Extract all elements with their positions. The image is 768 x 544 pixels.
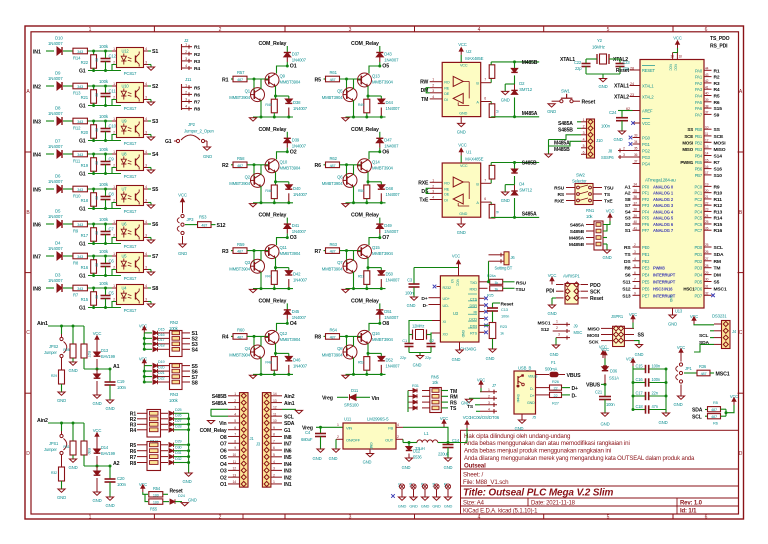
svg-text:Anda bebas menggunakan dan ata: Anda bebas menggunakan dan atau memodifi…: [464, 440, 630, 447]
svg-text:Y2: Y2: [597, 38, 603, 43]
svg-text:21: 21: [705, 195, 709, 199]
resistor R25 1k: [490, 286, 503, 291]
svg-text:R4: R4: [222, 335, 229, 341]
svg-text:PC817: PC817: [124, 141, 137, 146]
label S2: [148, 85, 151, 87]
svg-text:14: 14: [705, 152, 709, 156]
wires emitter/collector: [260, 81, 262, 89]
label S4: [182, 348, 190, 350]
svg-text:O2: O2: [290, 149, 297, 155]
diode lower half: [96, 369, 98, 374]
svg-text:R13: R13: [714, 209, 723, 215]
svg-text:1: 1: [337, 423, 339, 427]
svg-text:PA7: PA7: [695, 112, 703, 117]
svg-text:U5: U5: [122, 254, 128, 259]
connector J3: [262, 393, 271, 488]
svg-text:VBUS: VBUS: [586, 383, 601, 389]
svg-text:S485B: S485B: [558, 127, 573, 133]
svg-text:S1: S1: [152, 49, 158, 55]
svg-text:17: 17: [705, 171, 709, 175]
svg-text:487: 487: [330, 164, 336, 168]
svg-text:MMBT3904: MMBT3904: [322, 181, 344, 186]
svg-text:D37: D37: [292, 52, 300, 57]
svg-text:RSU: RSU: [516, 280, 527, 286]
transistor Q13 MMBT3904: [358, 73, 372, 87]
svg-text:PA5: PA5: [695, 100, 703, 105]
svg-text:S7: S7: [152, 254, 158, 260]
svg-text:GND: GND: [57, 398, 66, 403]
svg-text:22p: 22p: [425, 355, 432, 360]
wires emitter/collector: [260, 167, 262, 175]
svg-text:22: 22: [705, 201, 709, 205]
svg-text:R63: R63: [330, 242, 338, 247]
svg-text:HC06/OS/DT06: HC06/OS/DT06: [470, 415, 500, 420]
wire: [46, 85, 54, 87]
svg-text:J10: J10: [596, 138, 603, 143]
optocoupler U9 PC817: [117, 118, 144, 138]
resistor R36 487: [684, 372, 697, 374]
svg-text:S485A: S485A: [558, 121, 573, 127]
svg-text:22p: 22p: [575, 66, 582, 71]
svg-text:1N4007: 1N4007: [386, 278, 401, 283]
svg-text:R32: R32: [51, 471, 57, 475]
svg-text:12MHz: 12MHz: [412, 324, 424, 329]
wire: [63, 120, 73, 122]
svg-text:INTERRUPT: INTERRUPT: [653, 280, 676, 285]
j9 gnd: [555, 338, 557, 345]
svg-text:Reset: Reset: [590, 296, 604, 302]
svg-text:PC4: PC4: [694, 209, 702, 214]
wire to pin2: [88, 135, 117, 141]
svg-text:27: 27: [705, 257, 709, 261]
svg-text:GND: GND: [409, 504, 418, 509]
avrisp gnd: [552, 297, 556, 299]
capacitor C2 22p: [427, 343, 436, 345]
svg-text:IN4: IN4: [284, 462, 292, 468]
svg-text:1: 1: [113, 284, 115, 288]
resistor R62 487: [324, 164, 326, 166]
svg-text:IN3: IN3: [284, 469, 292, 475]
svg-text:O5: O5: [382, 64, 389, 70]
svg-text:1N4007: 1N4007: [293, 278, 308, 283]
svg-text:4: 4: [145, 185, 147, 189]
j7 gnd wire: [469, 397, 480, 399]
svg-text:DI: DI: [444, 98, 448, 102]
svg-text:D41: D41: [292, 223, 300, 228]
pullup vcc: [725, 409, 727, 416]
svg-text:D50: D50: [386, 272, 394, 277]
svg-text:43: 43: [705, 73, 709, 77]
diode D38 1N4007: [285, 99, 292, 103]
transistor Q16 MMBT3904: [358, 330, 372, 344]
svg-text:25: 25: [705, 220, 709, 224]
svg-text:V3: V3: [450, 279, 454, 283]
svg-text:A1: A1: [625, 184, 631, 190]
svg-text:M485B: M485B: [522, 60, 538, 66]
resistor R29: [61, 358, 63, 370]
svg-text:4: 4: [432, 95, 434, 99]
capacitor C15 100n: [633, 368, 645, 370]
svg-text:G1: G1: [79, 104, 86, 110]
svg-text:22: 22: [554, 387, 558, 391]
svg-text:VCC: VCC: [642, 121, 650, 126]
svg-text:42: 42: [705, 79, 709, 83]
wire to pin2: [88, 65, 117, 71]
diode D9 1N4007: [57, 82, 62, 90]
ground: [548, 104, 555, 107]
wire to pin2: [88, 302, 117, 308]
jp1 gnd: [680, 385, 682, 397]
svg-text:37: 37: [634, 160, 638, 164]
svg-text:GND: GND: [178, 251, 187, 256]
svg-text:4: 4: [145, 82, 147, 86]
capacitor C23 22p: [619, 59, 621, 64]
svg-text:100: 100: [153, 501, 159, 505]
capacitor C22 22p: [585, 59, 587, 64]
j3 pin12 gnd: [282, 408, 296, 410]
capacitor C10: [105, 121, 107, 129]
diode D24: [163, 501, 169, 503]
capacitor C18 47n: [633, 409, 645, 411]
svg-text:R54: R54: [153, 486, 161, 491]
svg-text:MOSI: MOSI: [682, 140, 693, 145]
svg-text:R11: R11: [73, 159, 81, 164]
resistor R26 22: [536, 387, 550, 389]
svg-text:7: 7: [484, 78, 486, 82]
wires emitter/collector: [260, 338, 262, 346]
svg-text:10: 10: [679, 55, 683, 59]
svg-text:PF2: PF2: [642, 197, 650, 202]
bias resistor top: [490, 79, 492, 83]
svg-text:TM: TM: [421, 97, 428, 103]
svg-text:GND: GND: [668, 322, 677, 327]
svg-text:4: 4: [145, 284, 147, 288]
svg-text:343: 343: [77, 153, 83, 157]
svg-text:1N4007: 1N4007: [292, 58, 307, 63]
svg-text:D36: D36: [610, 369, 618, 374]
svg-text:343: 343: [77, 120, 83, 124]
svg-text:C15: C15: [636, 364, 644, 369]
svg-text:S9: S9: [714, 112, 720, 118]
svg-text:PC5: PC5: [694, 216, 702, 221]
label S5: [148, 188, 151, 190]
svg-text:13: 13: [273, 399, 277, 403]
svg-text:Q7: Q7: [337, 260, 343, 265]
svg-text:GND: GND: [501, 97, 510, 102]
svg-text:5: 5: [273, 453, 275, 457]
svg-text:PDI: PDI: [546, 289, 555, 295]
svg-text:R8: R8: [73, 261, 79, 266]
svg-text:D-: D-: [423, 303, 428, 309]
svg-text:TM: TM: [714, 266, 721, 272]
svg-text:R9: R9: [714, 184, 720, 190]
wire: [88, 255, 117, 257]
svg-text:O1: O1: [220, 482, 227, 488]
svg-text:GND: GND: [421, 504, 430, 509]
svg-text:COM_Relay: COM_Relay: [351, 298, 379, 304]
svg-text:JPS1: JPS1: [49, 441, 59, 446]
svg-text:G1: G1: [79, 139, 86, 145]
svg-text:PE3: PE3: [642, 266, 650, 271]
svg-text:37: 37: [705, 111, 709, 115]
svg-text:C23: C23: [623, 60, 631, 65]
svg-text:D31: D31: [175, 451, 182, 455]
connector J6 setting: [489, 254, 505, 256]
svg-text:100n: 100n: [652, 364, 661, 369]
svg-text:M485B: M485B: [569, 242, 585, 248]
svg-text:R4: R4: [194, 66, 200, 72]
svg-text:1: 1: [556, 319, 558, 323]
svg-text:G1: G1: [79, 306, 86, 312]
svg-text:2: 2: [583, 124, 585, 128]
svg-text:1N4007: 1N4007: [48, 41, 63, 46]
wire to bases: [247, 250, 269, 252]
svg-text:343: 343: [77, 287, 83, 291]
svg-text:GND: GND: [398, 504, 407, 509]
svg-text:C2: C2: [429, 338, 434, 343]
svg-text:1N4007: 1N4007: [293, 192, 308, 197]
svg-text:3: 3: [558, 333, 560, 337]
svg-text:S6: S6: [625, 273, 631, 279]
svg-text:IN5: IN5: [33, 187, 41, 193]
label S485B: [491, 162, 539, 164]
svg-text:U10: U10: [122, 84, 130, 89]
TVS diode D2 SM712: [514, 62, 516, 69]
svg-text:D14: D14: [101, 445, 109, 450]
svg-text:GND: GND: [486, 356, 495, 361]
emitter rail and ground: [260, 186, 262, 203]
svg-text:Q2: Q2: [245, 174, 251, 179]
diode D49 1N4007: [376, 224, 383, 228]
svg-text:S485B: S485B: [522, 161, 537, 167]
svg-text:14: 14: [232, 480, 236, 484]
optocoupler U10 PC817: [117, 83, 144, 103]
svg-text:R20: R20: [81, 130, 89, 135]
svg-text:6: 6: [484, 97, 486, 101]
svg-text:R48: R48: [265, 360, 271, 364]
svg-text:40: 40: [634, 220, 638, 224]
svg-text:Jumper_2_Open: Jumper_2_Open: [184, 129, 214, 134]
svg-text:D42: D42: [293, 272, 301, 277]
svg-text:PB7: PB7: [695, 173, 703, 178]
wire to bases: [340, 78, 362, 80]
svg-text:MMBT3904: MMBT3904: [322, 352, 344, 357]
svg-text:D9: D9: [55, 71, 61, 76]
resistor R27: [83, 326, 85, 344]
svg-text:16: 16: [705, 165, 709, 169]
svg-text:R16: R16: [714, 228, 723, 234]
svg-text:MSC: MSC: [574, 330, 583, 335]
svg-text:4: 4: [145, 117, 147, 121]
svg-text:GND: GND: [457, 129, 466, 134]
svg-text:30: 30: [705, 278, 709, 282]
svg-text:RN5: RN5: [431, 375, 440, 380]
svg-text:4: 4: [397, 423, 399, 427]
svg-text:R57: R57: [237, 70, 245, 75]
svg-text:SS: SS: [687, 127, 693, 132]
optocoupler U6 PC817: [117, 221, 144, 241]
svg-text:GND: GND: [461, 330, 465, 338]
svg-text:S11: S11: [622, 280, 630, 286]
svg-text:JP1: JP1: [685, 366, 692, 371]
svg-text:24: 24: [705, 214, 709, 218]
svg-text:Q13: Q13: [372, 74, 380, 79]
svg-text:GND: GND: [407, 303, 416, 308]
svg-text:SCL: SCL: [284, 414, 294, 420]
svg-text:R7: R7: [714, 160, 720, 166]
svg-text:GND: GND: [188, 498, 197, 503]
svg-text:RN3: RN3: [170, 392, 179, 397]
svg-text:R19: R19: [81, 163, 89, 168]
svg-text:32: 32: [705, 292, 709, 296]
svg-text:DS: DS: [624, 259, 631, 265]
svg-text:PB5: PB5: [695, 160, 703, 165]
wire to bases: [340, 335, 362, 337]
svg-text:GND: GND: [515, 426, 524, 431]
svg-text:IN8: IN8: [33, 286, 41, 292]
svg-text:C10: C10: [109, 124, 117, 129]
xtal gnd: [409, 352, 431, 354]
svg-text:R6: R6: [194, 92, 200, 98]
ground: [148, 64, 151, 66]
svg-text:SW2: SW2: [576, 173, 586, 178]
svg-text:MOSI: MOSI: [714, 140, 727, 146]
svg-text:100n: 100n: [405, 291, 414, 296]
svg-text:RE: RE: [444, 187, 450, 191]
svg-text:1N4007: 1N4007: [384, 143, 399, 148]
wire: [88, 287, 117, 289]
svg-text:MSC1: MSC1: [716, 372, 730, 378]
svg-text:D47: D47: [384, 137, 392, 142]
label S7: [182, 376, 190, 378]
wire collector net: [277, 234, 288, 246]
diode D29: [169, 443, 174, 447]
svg-text:HSC3 IN16: HSC3 IN16: [653, 286, 673, 291]
svg-text:R28: R28: [63, 348, 69, 352]
svg-text:1N4007: 1N4007: [386, 363, 401, 368]
svg-text:MMBT3904: MMBT3904: [229, 95, 251, 100]
svg-text:XI: XI: [443, 320, 446, 324]
wire: [88, 223, 117, 225]
capacitor C14 220uF: [447, 443, 449, 445]
svg-text:Q3: Q3: [245, 260, 251, 265]
svg-text:Ain2: Ain2: [284, 394, 295, 400]
svg-text:2: 2: [113, 265, 115, 269]
svg-text:GND: GND: [603, 255, 612, 260]
svg-text:R6: R6: [714, 100, 720, 106]
svg-text:GND: GND: [106, 406, 115, 411]
svg-text:4: 4: [145, 220, 147, 224]
svg-text:4: 4: [185, 64, 187, 68]
wires emitter/collector: [260, 253, 262, 261]
capacitor C1 22p: [405, 343, 414, 345]
svg-text:D+: D+: [530, 394, 534, 398]
svg-text:D: D: [26, 451, 30, 457]
resistor R19: [93, 154, 95, 158]
svg-text:D43: D43: [384, 52, 392, 57]
diode D45 1N4007: [284, 310, 291, 314]
svg-text:MOSI: MOSI: [587, 333, 600, 339]
svg-text:R2: R2: [222, 163, 229, 169]
resistor R15: [93, 288, 95, 292]
wire: [286, 303, 288, 310]
diode D16: [144, 337, 152, 339]
svg-text:3: 3: [145, 233, 147, 237]
diode lower half: [96, 466, 98, 471]
connector J1: [240, 393, 249, 488]
svg-text:3: 3: [185, 98, 187, 102]
svg-text:GND: GND: [203, 154, 212, 159]
wire to bases: [247, 78, 269, 80]
svg-text:PD0: PD0: [694, 245, 702, 250]
resistor R48: [275, 353, 277, 356]
svg-text:RS_PDI: RS_PDI: [710, 44, 728, 50]
mcu body: [640, 60, 704, 309]
wire to bases: [247, 335, 269, 337]
svg-text:2: 2: [432, 184, 434, 188]
svg-text:SS1A: SS1A: [609, 376, 619, 381]
svg-text:1: 1: [89, 27, 92, 33]
svg-text:MMBT3904: MMBT3904: [229, 267, 251, 272]
svg-text:S4: S4: [625, 209, 631, 215]
svg-text:D46: D46: [293, 357, 301, 362]
svg-text:GND: GND: [183, 479, 192, 484]
svg-text:D40: D40: [293, 186, 301, 191]
svg-text:1N4007: 1N4007: [48, 246, 63, 251]
svg-text:SM712: SM712: [519, 188, 533, 193]
svg-text:100k: 100k: [99, 79, 109, 84]
svg-text:D28: D28: [175, 424, 182, 428]
wire: [46, 120, 54, 122]
svg-text:R17: R17: [81, 233, 89, 238]
svg-text:2: 2: [623, 147, 625, 151]
svg-text:PC817: PC817: [124, 71, 137, 76]
svg-text:PE1: PE1: [642, 252, 650, 257]
diode D18: [144, 348, 152, 350]
svg-text:D15: D15: [158, 327, 165, 331]
svg-text:3: 3: [623, 153, 625, 157]
svg-text:1N4007: 1N4007: [48, 278, 63, 283]
svg-text:R5: R5: [315, 77, 322, 83]
svg-text:S12: S12: [217, 223, 226, 229]
svg-text:R64: R64: [330, 328, 338, 333]
svg-text:R1: R1: [194, 45, 200, 51]
vcc out: [448, 442, 467, 444]
svg-text:34: 34: [634, 140, 638, 144]
diode D4 1N4007: [57, 252, 62, 260]
svg-text:TS: TS: [625, 252, 632, 258]
svg-text:IN6: IN6: [284, 448, 292, 454]
svg-text:R29: R29: [51, 374, 57, 378]
label A2: [84, 465, 110, 467]
svg-text:SCK: SCK: [589, 340, 600, 346]
diode D40 1N4007: [285, 185, 292, 189]
svg-text:D13: D13: [101, 348, 109, 353]
svg-text:R16: R16: [81, 265, 89, 270]
svg-text:COM_Relay: COM_Relay: [351, 41, 379, 47]
svg-text:MSC1: MSC1: [714, 286, 727, 292]
svg-text:6: 6: [705, 514, 708, 520]
svg-text:PE4: PE4: [642, 273, 650, 278]
title block: [461, 430, 739, 514]
svg-text:G1: G1: [79, 274, 86, 280]
svg-text:R7: R7: [315, 249, 322, 255]
svg-text:GND: GND: [313, 456, 322, 461]
svg-text:RXE: RXE: [418, 180, 429, 186]
svg-text:SSSP6: SSSP6: [601, 155, 614, 160]
svg-text:GND: GND: [457, 230, 466, 235]
svg-text:22n: 22n: [652, 391, 659, 396]
